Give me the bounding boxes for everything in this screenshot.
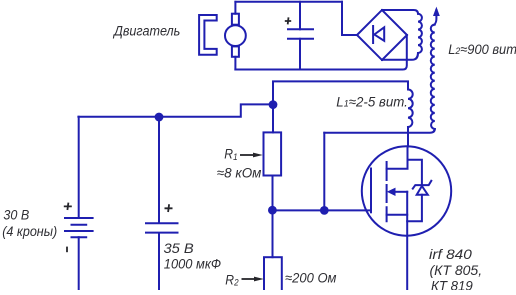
svg-text:R2: R2 bbox=[225, 272, 238, 288]
plus sign of C1 bbox=[285, 17, 291, 24]
plus sign of C2 bbox=[165, 204, 173, 212]
motor M1 stator bracket bbox=[199, 15, 217, 55]
VT1 gate electrode bbox=[370, 169, 372, 213]
antenna arrow of L2 bbox=[434, 10, 436, 25]
battery GB1 negative lead bbox=[78, 237, 80, 290]
capacitor C2 lead bottom bbox=[158, 233, 160, 290]
VT1 substrate arrow bbox=[395, 191, 408, 193]
wire motor bottom lead bbox=[234, 57, 236, 70]
motor M1 top brush bbox=[232, 14, 239, 25]
plus sign of battery bbox=[64, 203, 72, 210]
bridge diode symbol bbox=[373, 26, 384, 43]
winding L3 coupling coil bbox=[418, 14, 422, 53]
transistor VT1 circle bbox=[362, 146, 451, 235]
coil L2 secondary bbox=[431, 25, 435, 130]
VT1 source stub bbox=[387, 214, 408, 216]
svg-text:≈8 кОм: ≈8 кОм bbox=[217, 165, 262, 180]
svg-text:≈200 Ом: ≈200 Ом bbox=[285, 270, 336, 286]
minus tick of battery bbox=[66, 247, 68, 253]
svg-text:L2≈900 вит.: L2≈900 вит. bbox=[448, 41, 516, 57]
VT1 body diode branch bbox=[408, 160, 422, 185]
wire motor top lead bbox=[234, 2, 236, 14]
resistor R2 bbox=[264, 257, 282, 295]
wire rail down to R1 bbox=[272, 104, 274, 132]
svg-text:(КТ 805,: (КТ 805, bbox=[430, 262, 483, 278]
motor M1 rotor circle bbox=[225, 25, 246, 46]
arrow R2 bbox=[242, 278, 256, 280]
coil L1 primary bbox=[408, 90, 413, 128]
wire L1 bottom to drain bbox=[407, 127, 409, 147]
wire bridge left lead bbox=[342, 2, 357, 35]
svg-text:irf 840: irf 840 bbox=[429, 248, 473, 263]
VT1 diode anode lead bbox=[407, 195, 422, 222]
svg-text:R1: R1 bbox=[224, 146, 237, 162]
wire gate node up to L2 return bbox=[323, 133, 325, 211]
node junction battery rail / C2 bbox=[155, 113, 164, 122]
wire bridge top to winding L3 bbox=[382, 10, 418, 14]
wire R1 bottom to gate node bbox=[272, 176, 274, 211]
wire L1 top feed bbox=[273, 81, 408, 104]
arrow R1 bbox=[240, 154, 255, 156]
node junction R1/R2/gate bbox=[268, 206, 277, 215]
VT1 zener bar bbox=[413, 181, 432, 189]
battery GB1 plates bbox=[65, 218, 93, 237]
svg-text:1000 мкФ: 1000 мкФ bbox=[164, 256, 222, 272]
node junction gate / L2 return bbox=[320, 206, 329, 215]
wire top rail bbox=[235, 1, 342, 3]
wire R2 top bbox=[272, 210, 274, 257]
resistor R1 bbox=[264, 132, 282, 175]
svg-text:35 В: 35 В bbox=[164, 241, 195, 257]
motor M1 bottom brush bbox=[232, 46, 239, 56]
wire bottom rail to bridge bbox=[235, 35, 406, 70]
capacitor C1 plates bbox=[288, 29, 313, 39]
svg-text:КТ 819: КТ 819 bbox=[431, 278, 473, 290]
wire winding L3 bottom to bridge bottom bbox=[382, 53, 418, 60]
supply rail from battery bbox=[78, 104, 273, 116]
capacitor C1 lead top bbox=[299, 2, 301, 30]
capacitor C2 plates bbox=[146, 222, 178, 224]
VT1 source lead down bbox=[406, 192, 408, 290]
battery GB1 positive lead bbox=[78, 117, 80, 217]
capacitor C1 lead bottom bbox=[299, 39, 301, 70]
node junction rail / R1 / L1 bbox=[269, 100, 278, 109]
svg-text:L1≈2-5 вит.: L1≈2-5 вит. bbox=[336, 94, 408, 109]
VT1 drain stub bbox=[387, 147, 408, 169]
wire L2 bottom to gate net bbox=[324, 129, 435, 133]
wire gate horizontal bbox=[272, 209, 371, 211]
svg-text:Двигатель: Двигатель bbox=[112, 23, 180, 39]
VT1 zener triangle bbox=[417, 186, 428, 195]
bridge rectifier VD1 diamond bbox=[357, 10, 407, 60]
svg-text:30 В: 30 В bbox=[3, 207, 29, 223]
capacitor C2 lead top bbox=[158, 117, 160, 222]
VT1 channel segments bbox=[386, 162, 388, 221]
svg-text:(4 кроны): (4 кроны) bbox=[2, 223, 57, 239]
